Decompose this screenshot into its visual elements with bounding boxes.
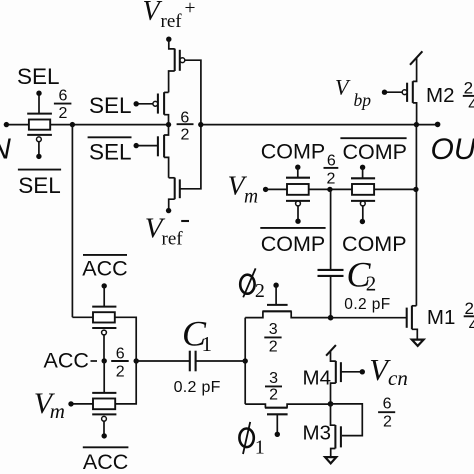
- plate right: [195, 351, 197, 372]
- transmission gate COMP (left): [286, 165, 310, 224]
- svg-text:M2: M2: [426, 84, 454, 107]
- svg-text:4: 4: [468, 95, 474, 114]
- gate bar bottom: [92, 413, 116, 415]
- gate bar top: [27, 113, 52, 115]
- transmission gate ACCbar (from IN): [72, 283, 136, 361]
- body box: [352, 184, 374, 195]
- wire left: [136, 360, 189, 362]
- ground: [325, 457, 336, 463]
- wire source jog: [164, 91, 169, 93]
- svg-text:COMP: COMP: [342, 140, 407, 164]
- svg-text:1: 1: [202, 332, 213, 356]
- capacitor C2: [318, 189, 344, 317]
- svg-text:cn: cn: [388, 366, 408, 390]
- wire gate lead bottom: [38, 142, 40, 157]
- label ACCbar (top): [83, 254, 127, 256]
- svg-text:OUT: OUT: [431, 133, 474, 166]
- transmission gate SEL (left input switch): [27, 91, 52, 160]
- label SELbar (below left TG): [18, 169, 61, 171]
- gate bar: [157, 136, 159, 156]
- channel: [262, 310, 291, 312]
- svg-text:4: 4: [469, 316, 474, 335]
- svg-text:IN: IN: [0, 133, 11, 165]
- plate top: [318, 269, 344, 271]
- node stack junction left: [166, 122, 171, 127]
- transistor M4 NMOS (cascode to Vcn): [326, 345, 365, 404]
- gate bar bottom: [27, 134, 52, 136]
- svg-text:SEL: SEL: [89, 93, 132, 118]
- wire source lead: [245, 404, 265, 408]
- transistor NMOS bottom (diode to Vref-): [169, 178, 180, 211]
- svg-text:2: 2: [366, 272, 377, 296]
- wire gate to Vbp dot: [385, 91, 403, 93]
- main horizontal wire stack to OUT: [200, 124, 438, 126]
- node COMP gate dot: [295, 165, 300, 170]
- gate bar bottom: [286, 200, 310, 202]
- main horizontal wire IN to stack: [6, 124, 169, 126]
- wire drain lead: [164, 157, 169, 177]
- svg-text:SEL: SEL: [18, 173, 61, 198]
- node ACCbar gate dot bottom: [102, 433, 107, 438]
- label COMPbar (below left TG): [260, 227, 325, 229]
- node M3 drain junction: [328, 401, 334, 407]
- wire gate to Vcn dot: [341, 371, 362, 373]
- svg-text:m: m: [50, 399, 65, 423]
- label COMPbar (top right of pair): [340, 137, 406, 139]
- bubble: [296, 201, 301, 206]
- wire left rail down to ACC gate: [71, 125, 73, 318]
- svg-text:ref: ref: [161, 11, 183, 32]
- node OUT terminal: [435, 122, 441, 128]
- gate bar: [157, 94, 159, 114]
- svg-text:2: 2: [58, 105, 67, 122]
- wire gate lead top: [297, 167, 299, 178]
- svg-text:3: 3: [269, 321, 278, 338]
- channel: [412, 81, 414, 103]
- wire gate to SEL dot: [136, 103, 153, 105]
- gate bar top: [92, 392, 116, 394]
- wire source lead: [245, 311, 263, 317]
- transistor M2 PMOS (Vbp bias): [382, 51, 423, 124]
- wire drain lead: [169, 199, 175, 210]
- node IN terminal: [4, 122, 9, 127]
- wire source lead: [412, 329, 417, 339]
- ground: [412, 340, 424, 346]
- node C1 left: [134, 358, 139, 363]
- gate bar: [179, 50, 181, 71]
- svg-text:COMP: COMP: [261, 139, 326, 163]
- gate bar bottom: [92, 327, 116, 329]
- node SELbar dot: [134, 143, 139, 148]
- channel: [163, 135, 165, 158]
- transistor NMOS SELbar (middle stack): [134, 125, 169, 178]
- label phi2: [240, 268, 265, 302]
- body box: [93, 312, 115, 322]
- wire gate lead bottom: [362, 206, 364, 222]
- transistor PMOS SEL (middle stack): [134, 92, 169, 124]
- wire left lead to Vm: [71, 403, 93, 405]
- node C2 junction: [327, 187, 332, 192]
- bubble: [153, 101, 158, 106]
- node stack junction right: [198, 122, 203, 127]
- svg-text:0.2 pF: 0.2 pF: [174, 379, 221, 396]
- wire drain jog: [412, 305, 417, 307]
- gate bar top: [92, 306, 116, 308]
- body box: [287, 184, 309, 195]
- transmission gate COMPbar (right): [351, 165, 375, 225]
- label SELbar (middle): [88, 136, 132, 138]
- svg-text:ref: ref: [162, 228, 184, 249]
- svg-text:COMP: COMP: [261, 232, 326, 256]
- wire drain lead: [413, 103, 417, 125]
- wire left lead: [72, 316, 93, 318]
- wire source lead: [164, 125, 168, 135]
- wire M3 gate feedback loop: [331, 404, 363, 436]
- node phi2/C2/M1 junction: [328, 315, 334, 321]
- wire gate lead bottom: [103, 335, 105, 361]
- wire gate lead top: [38, 93, 40, 113]
- svg-text:SEL: SEL: [89, 139, 132, 164]
- svg-text:ACC: ACC: [83, 450, 128, 474]
- transistor M1 NMOS (output driver): [407, 306, 424, 346]
- wire gate lead top: [362, 167, 364, 178]
- bubble: [360, 201, 365, 206]
- bubble: [102, 330, 107, 335]
- wire right lead to C1 rail: [115, 361, 136, 404]
- transistor NMOS phi1 switch: [245, 404, 330, 437]
- node C1 right: [243, 358, 248, 363]
- wire gate lead top: [103, 361, 105, 393]
- body box: [29, 120, 50, 130]
- gate bar top: [351, 177, 375, 179]
- svg-text:6: 6: [58, 88, 67, 105]
- node OUT junction: [414, 122, 419, 127]
- node ACCbar gate dot: [102, 283, 107, 288]
- svg-text:2: 2: [326, 170, 335, 187]
- svg-text:2: 2: [255, 280, 265, 302]
- node Vm terminal: [263, 187, 268, 192]
- capacitor C1: [134, 351, 246, 372]
- wire source lead: [331, 351, 336, 362]
- svg-text:+: +: [185, 0, 196, 19]
- svg-text:V: V: [143, 0, 163, 27]
- wire top rail: [330, 189, 332, 269]
- wire phi rail (C1 node): [244, 318, 246, 405]
- gate bar top: [286, 177, 310, 179]
- transistor NMOS phi2 switch: [245, 285, 330, 317]
- wire diode gate rail (top PMOS gate to bottom NMOS gate): [180, 60, 201, 189]
- svg-text:M1: M1: [427, 306, 455, 329]
- svg-text:COMP: COMP: [342, 232, 407, 256]
- gate bar bottom: [351, 200, 375, 202]
- svg-text:2: 2: [383, 414, 392, 431]
- gate bar: [406, 308, 408, 328]
- channel: [174, 49, 176, 71]
- svg-text:2: 2: [181, 127, 190, 144]
- wire drain lead: [291, 311, 330, 317]
- svg-text:SEL: SEL: [17, 64, 60, 89]
- wire source lead: [331, 449, 336, 457]
- node Vcn dot: [360, 369, 365, 374]
- channel: [174, 178, 176, 200]
- wire gate lead bottom: [103, 421, 105, 436]
- svg-text:6: 6: [383, 396, 392, 413]
- node SEL dot: [134, 101, 139, 106]
- plate bottom: [318, 275, 344, 277]
- channel: [265, 407, 288, 409]
- node Vref+ terminal: [166, 37, 171, 42]
- svg-text:3: 3: [269, 370, 278, 387]
- gate bar: [267, 413, 288, 415]
- svg-text:ACC: ACC: [82, 257, 127, 281]
- wire drain lead: [331, 404, 336, 425]
- node feedback TG junction: [413, 187, 418, 192]
- wire gate to SELbar dot: [136, 145, 158, 147]
- bubble PMOS gate: [37, 137, 42, 142]
- node COMP gate dot bottom: [360, 219, 365, 224]
- wire bottom rail: [330, 277, 332, 318]
- node SEL gate dot: [36, 91, 41, 96]
- svg-text:bp: bp: [354, 90, 372, 110]
- node Vm terminal (bottom): [68, 401, 73, 406]
- wire right: [196, 360, 245, 362]
- svg-text:2: 2: [116, 364, 125, 381]
- node Vref- terminal: [166, 208, 171, 213]
- gate bar: [340, 426, 342, 447]
- gate bar: [179, 179, 181, 198]
- wire gate lead top: [103, 286, 105, 307]
- channel: [163, 92, 165, 115]
- wire source lead: [413, 58, 417, 82]
- wire source lead: [169, 39, 175, 49]
- channel: [335, 361, 337, 383]
- node phi1 gate dot: [275, 432, 280, 437]
- node junction main wire to ACC branch: [70, 122, 75, 127]
- vdd slash: [410, 51, 422, 65]
- node phi2 gate dot: [273, 283, 278, 288]
- svg-text:M4: M4: [303, 367, 331, 390]
- label ACCbar (bottom): [83, 446, 129, 448]
- wire gate lead: [276, 414, 278, 434]
- vdd slash: [326, 345, 336, 356]
- plate left: [189, 351, 191, 372]
- svg-text:1: 1: [255, 437, 265, 459]
- node Vbp dot: [382, 90, 387, 95]
- wire M1 gate wire: [331, 317, 407, 319]
- gate bar: [340, 362, 342, 382]
- channel: [334, 425, 336, 449]
- wire gate lead bottom: [297, 206, 299, 221]
- node ACC dot: [102, 358, 107, 363]
- bubble: [180, 58, 185, 63]
- transistor M3 NMOS (diode clamp): [325, 404, 341, 463]
- transmission gate ACC (from Vm): [71, 361, 136, 439]
- channel: [411, 306, 413, 330]
- node COMPbar gate dot top: [360, 165, 365, 170]
- body box: [93, 399, 115, 410]
- svg-text:2: 2: [269, 386, 278, 403]
- node SELbar gate dot: [36, 154, 41, 159]
- transistor PMOS top (diode to Vref+): [169, 39, 185, 92]
- svg-text:0.2 pF: 0.2 pF: [344, 296, 390, 313]
- bubble: [102, 416, 107, 421]
- node COMPbar gate dot: [295, 219, 300, 224]
- label phi1: [239, 422, 264, 459]
- svg-text:ACC: ACC: [44, 349, 89, 373]
- svg-text:2: 2: [269, 339, 278, 356]
- wire Vm row: [266, 188, 416, 190]
- wire drain lead: [169, 71, 175, 92]
- wire source jog: [169, 177, 175, 179]
- bubble: [402, 90, 407, 95]
- wire right lead to C1 rail: [115, 317, 136, 361]
- wire drain lead: [331, 383, 336, 404]
- wire drain lead: [164, 115, 168, 125]
- gate bar: [267, 304, 288, 306]
- svg-text:m: m: [244, 186, 258, 207]
- wire gate lead: [275, 285, 277, 305]
- gate bar: [406, 83, 408, 102]
- wire OUT rail down to M1 drain: [415, 125, 417, 306]
- wire drain lead: [287, 404, 330, 408]
- svg-text:M3: M3: [303, 422, 331, 445]
